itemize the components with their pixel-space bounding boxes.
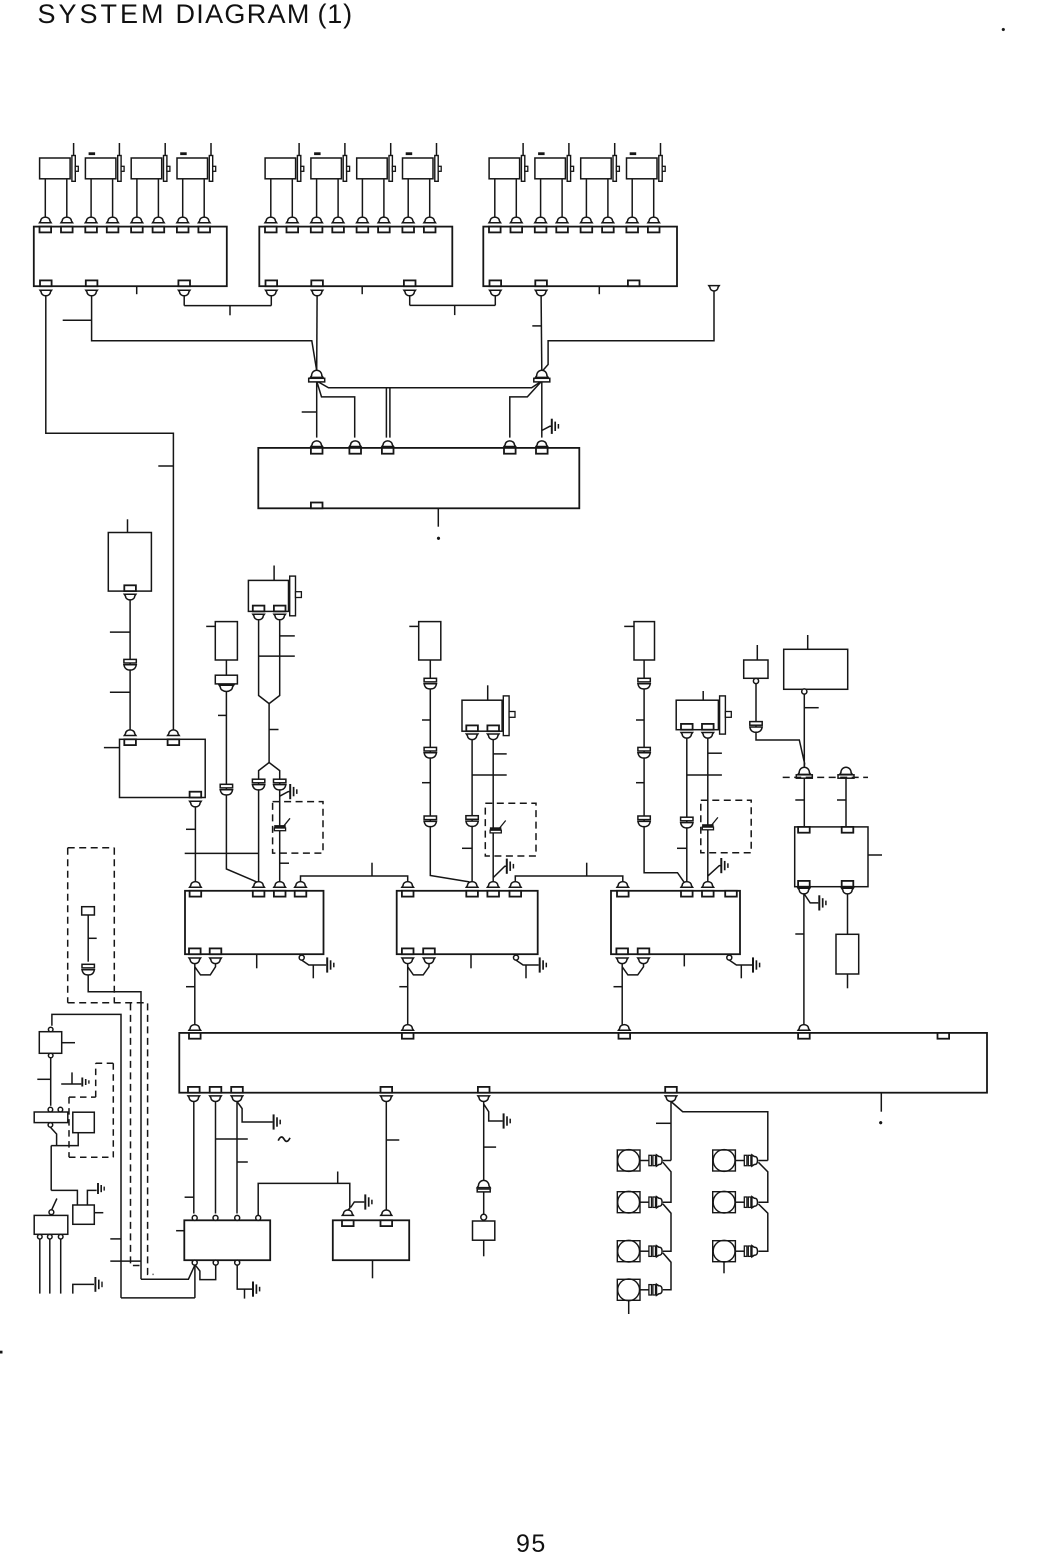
svg-text:(1): (1): [318, 0, 353, 29]
svg-text:DIAGRAM: DIAGRAM: [176, 0, 311, 29]
svg-text:95: 95: [516, 1530, 547, 1557]
svg-text:SYSTEM: SYSTEM: [38, 0, 167, 29]
